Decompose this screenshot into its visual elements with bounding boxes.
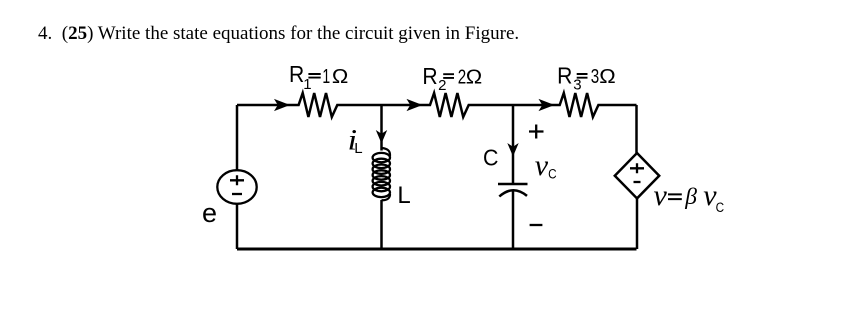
svg-text:Ω: Ω	[332, 66, 348, 88]
svg-text:C: C	[483, 145, 498, 171]
svg-text:Ω: Ω	[466, 66, 482, 88]
svg-text:β: β	[684, 184, 697, 210]
svg-text:v: v	[535, 149, 549, 182]
svg-text:3: 3	[591, 65, 600, 88]
svg-text:L: L	[354, 140, 362, 157]
svg-text:R: R	[557, 63, 572, 89]
svg-text:L: L	[397, 182, 410, 209]
svg-text:3: 3	[573, 77, 581, 94]
svg-text:C: C	[716, 199, 724, 215]
svg-text:Ω: Ω	[599, 66, 615, 88]
svg-text:v: v	[654, 179, 668, 212]
svg-text:1: 1	[303, 76, 311, 93]
svg-text:R: R	[422, 63, 437, 89]
svg-text:2: 2	[438, 77, 446, 94]
svg-text:1: 1	[322, 64, 330, 87]
svg-text:C: C	[548, 166, 556, 182]
svg-text:R: R	[289, 61, 304, 87]
svg-text:e: e	[202, 198, 217, 228]
